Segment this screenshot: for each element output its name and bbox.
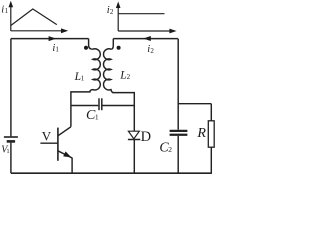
svg-text:1: 1 [6,148,9,155]
svg-text:R: R [196,126,206,141]
svg-text:2: 2 [150,47,154,55]
svg-text:2: 2 [127,73,131,81]
svg-text:D: D [141,129,151,145]
svg-text:2: 2 [110,8,114,16]
svg-text:2: 2 [168,145,172,154]
svg-text:L: L [119,69,126,81]
svg-text:1: 1 [81,75,85,83]
svg-text:1: 1 [55,46,59,54]
svg-text:1: 1 [95,112,99,121]
svg-text:1: 1 [5,7,9,15]
svg-text:V: V [42,129,52,144]
